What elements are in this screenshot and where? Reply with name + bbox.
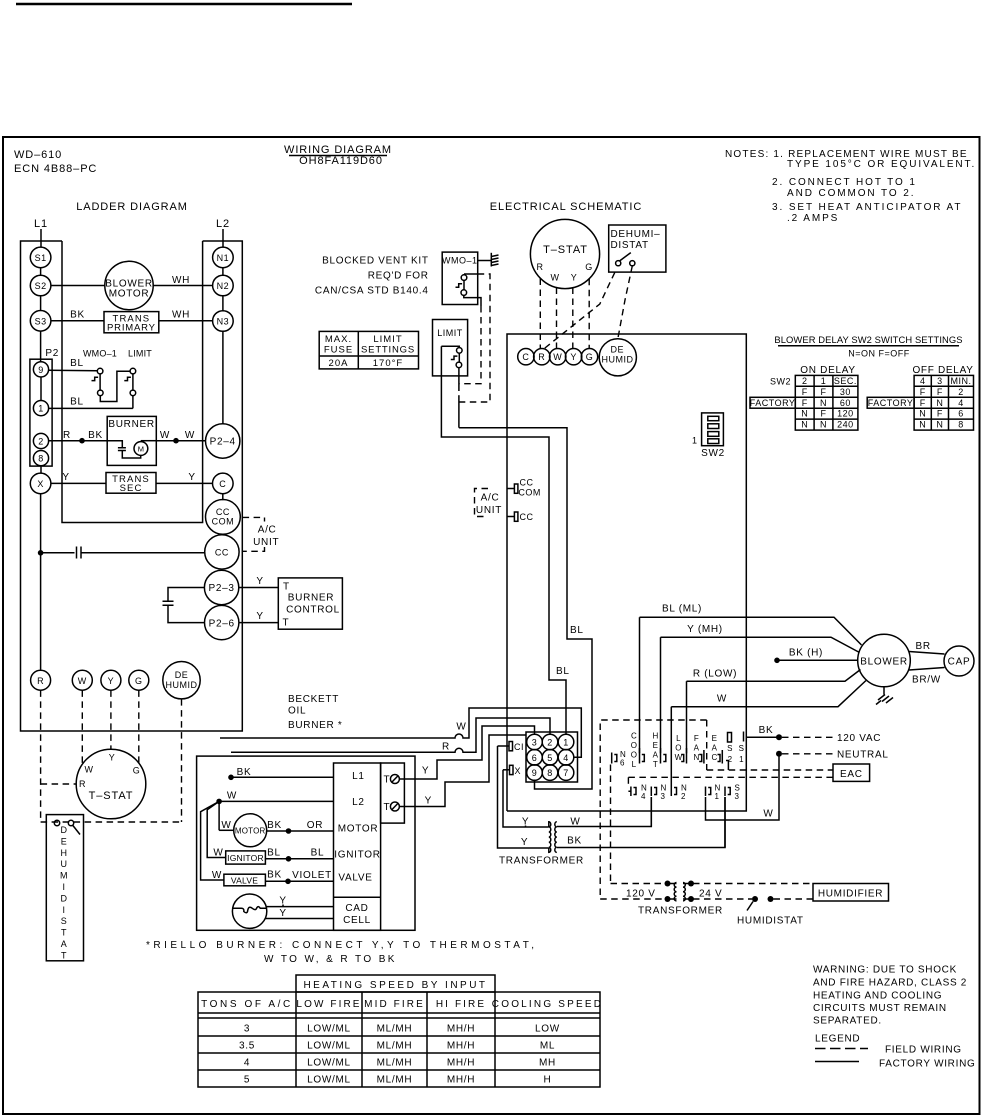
- svg-text:BURNER: BURNER: [108, 419, 154, 430]
- svg-text:AND COMMON TO 2.: AND COMMON TO 2.: [787, 188, 915, 199]
- svg-text:120 V: 120 V: [626, 889, 656, 900]
- svg-text:8: 8: [958, 420, 964, 430]
- svg-text:L: L: [676, 734, 681, 743]
- burner box: [107, 416, 156, 465]
- svg-text:REQ'D FOR: REQ'D FOR: [368, 271, 429, 282]
- svg-text:A/C: A/C: [481, 493, 500, 504]
- wire Y from L1 screw to pin 3: [399, 726, 534, 779]
- svg-text:MH: MH: [539, 1058, 556, 1069]
- svg-text:LOW/ML: LOW/ML: [307, 1041, 351, 1052]
- svg-text:BK: BK: [267, 870, 282, 881]
- wire pin2 to burner, R BK: [49, 440, 108, 442]
- plug S2: [728, 733, 732, 743]
- svg-text:CONTROL: CONTROL: [286, 605, 340, 616]
- field wire R to t-stat: [40, 690, 42, 822]
- svg-text:SW2: SW2: [770, 377, 791, 387]
- svg-text:O: O: [631, 741, 638, 750]
- svg-text:TRANSFORMER: TRANSFORMER: [638, 906, 723, 917]
- svg-text:FACTORY: FACTORY: [750, 398, 796, 408]
- svg-text:BURNER: BURNER: [288, 593, 334, 604]
- svg-text:T: T: [61, 950, 67, 960]
- svg-text:W: W: [185, 430, 195, 441]
- svg-text:T–STAT: T–STAT: [89, 790, 134, 802]
- heating speed table: [198, 975, 600, 1087]
- svg-text:VALVE: VALVE: [338, 873, 372, 884]
- svg-text:BL (ML): BL (ML): [662, 604, 702, 615]
- svg-text:1: 1: [739, 755, 744, 764]
- svg-text:1: 1: [38, 404, 44, 414]
- wire trans primary to N3, WH: [159, 320, 213, 322]
- svg-text:BL: BL: [556, 666, 570, 677]
- svg-text:R: R: [63, 430, 71, 441]
- field wire WMO-1 bottom tap: [459, 306, 481, 384]
- svg-text:BLOWER: BLOWER: [860, 657, 908, 668]
- svg-text:.2 AMPS: .2 AMPS: [787, 213, 839, 224]
- terminal Y: [101, 670, 121, 690]
- svg-text:24 V: 24 V: [699, 889, 722, 900]
- svg-text:F: F: [821, 409, 827, 419]
- svg-text:HUMIDISTAT: HUMIDISTAT: [737, 916, 804, 927]
- svg-text:CELL: CELL: [343, 915, 371, 926]
- pin 8: [33, 451, 48, 466]
- svg-text:2. CONNECT HOT TO 1: 2. CONNECT HOT TO 1: [772, 177, 917, 188]
- svg-text:ML/MH: ML/MH: [377, 1075, 413, 1086]
- svg-text:U: U: [61, 859, 68, 869]
- svg-text:1: 1: [821, 376, 827, 386]
- plug S3: [725, 787, 730, 797]
- wire R(LOW) down to LOW plug: [686, 681, 688, 753]
- connector P2 box: [30, 359, 52, 466]
- svg-text:MH/H: MH/H: [447, 1058, 475, 1069]
- svg-text:COM: COM: [212, 517, 235, 527]
- svg-text:N: N: [919, 420, 926, 430]
- pin 6: [527, 750, 543, 766]
- blower motor B1: [105, 261, 153, 309]
- svg-text:M: M: [138, 445, 144, 454]
- A/C UNIT dashed bracket (ladder): [243, 517, 265, 551]
- svg-text:T–STAT: T–STAT: [543, 244, 588, 256]
- svg-text:A: A: [61, 939, 68, 949]
- plug N3: [651, 787, 656, 797]
- legend factory wiring sample: [815, 1061, 859, 1063]
- plug CI: [498, 745, 510, 747]
- plug X: [503, 769, 510, 771]
- svg-text:9: 9: [532, 768, 538, 778]
- svg-text:5: 5: [244, 1075, 250, 1086]
- svg-text:D: D: [61, 893, 68, 903]
- svg-text:W: W: [213, 848, 223, 859]
- svg-text:DISTAT: DISTAT: [611, 240, 649, 251]
- burner internal motor M: [134, 442, 148, 456]
- svg-text:CC: CC: [520, 512, 534, 522]
- svg-text:Y: Y: [521, 837, 528, 848]
- wire WMO-1 to chassis hash: [478, 260, 492, 262]
- svg-text:MH/H: MH/H: [447, 1075, 475, 1086]
- svg-text:3: 3: [735, 792, 740, 801]
- svg-text:BLOWER DELAY SW2 SWITCH SETTIN: BLOWER DELAY SW2 SWITCH SETTINGS: [774, 334, 962, 345]
- svg-text:T: T: [61, 928, 67, 938]
- pin 3: [527, 734, 543, 750]
- switch WMO-1 (schematic): [456, 274, 482, 306]
- svg-text:HUMID: HUMID: [602, 355, 634, 365]
- dehumidistat box (ladder): [46, 815, 83, 961]
- svg-text:EAC: EAC: [840, 769, 863, 780]
- svg-text:W TO W, & R TO BK: W TO W, & R TO BK: [264, 954, 397, 965]
- svg-text:8: 8: [38, 454, 44, 464]
- wire X down to R: [40, 494, 42, 670]
- svg-text:MH/H: MH/H: [447, 1024, 475, 1035]
- chassis hash symbol: [491, 253, 498, 267]
- svg-text:ML: ML: [540, 1041, 555, 1052]
- burner primary control column box: [334, 763, 381, 930]
- wire transformer BK to S3 plug: [557, 797, 725, 848]
- svg-text:4: 4: [641, 792, 646, 801]
- svg-text:WH: WH: [172, 275, 190, 286]
- svg-text:C: C: [219, 479, 226, 489]
- junction dot: [79, 438, 85, 444]
- svg-text:3. SET HEAT ANTICIPATOR AT: 3. SET HEAT ANTICIPATOR AT: [772, 202, 962, 213]
- burner motor circle: [234, 814, 267, 847]
- dehumidistat vertical label: [60, 825, 68, 960]
- terminal R (schematic): [534, 349, 550, 365]
- svg-text:DE: DE: [611, 345, 625, 355]
- svg-text:L2: L2: [216, 218, 230, 230]
- wire N1 plug to neutral dot: [706, 754, 780, 820]
- svg-text:F: F: [937, 387, 943, 397]
- svg-text:HEATING SPEED BY INPUT: HEATING SPEED BY INPUT: [303, 980, 487, 991]
- terminal G (schematic): [581, 349, 597, 365]
- svg-text:Y: Y: [279, 908, 286, 919]
- svg-text:Y: Y: [422, 766, 429, 777]
- svg-text:W: W: [456, 722, 466, 733]
- terminal P2-6: [205, 605, 239, 639]
- terminal G: [129, 670, 149, 690]
- field wire t-stat W: [556, 288, 558, 350]
- svg-text:60: 60: [840, 398, 851, 408]
- svg-text:A: A: [653, 751, 659, 760]
- svg-text:PRIMARY: PRIMARY: [107, 323, 156, 334]
- svg-text:BL: BL: [267, 848, 281, 859]
- svg-text:CAP: CAP: [948, 657, 971, 668]
- svg-text:F: F: [937, 409, 943, 419]
- svg-text:F: F: [802, 387, 808, 397]
- svg-text:1: 1: [715, 792, 720, 801]
- field wires into humidifier transformer: [611, 883, 665, 885]
- svg-text:HI FIRE: HI FIRE: [436, 999, 486, 1010]
- svg-text:P2–6: P2–6: [209, 618, 235, 629]
- svg-text:N3: N3: [217, 317, 230, 327]
- transformer T1 secondary box: [106, 473, 156, 494]
- svg-text:P2–3: P2–3: [209, 583, 235, 594]
- fuse-limit table: [319, 331, 418, 369]
- terminal CC COM: [206, 500, 241, 535]
- svg-text:MIN.: MIN.: [951, 376, 972, 386]
- svg-text:N: N: [693, 753, 699, 762]
- pin 4: [558, 750, 574, 766]
- field wire to EAC box: [707, 769, 833, 771]
- svg-text:F: F: [694, 734, 699, 743]
- svg-text:COOLING SPEED: COOLING SPEED: [492, 999, 603, 1010]
- svg-text:G: G: [586, 352, 594, 362]
- A/C UNIT dashed bracket (schematic): [475, 489, 489, 517]
- wire Y from L2 screw to pin 3 area: [399, 735, 526, 807]
- svg-text:LADDER DIAGRAM: LADDER DIAGRAM: [76, 201, 188, 213]
- svg-text:SETTINGS: SETTINGS: [361, 345, 415, 356]
- svg-text:C: C: [631, 732, 637, 741]
- plug N2: [671, 787, 676, 797]
- plug CC COM (A/C unit): [507, 488, 514, 490]
- terminal S2: [30, 275, 51, 296]
- svg-text:R: R: [37, 676, 44, 686]
- svg-text:LIMIT: LIMIT: [437, 328, 463, 338]
- pin 9: [527, 765, 543, 781]
- svg-text:S1: S1: [35, 253, 47, 263]
- terminal W (schematic): [550, 349, 566, 365]
- svg-text:IGNITOR: IGNITOR: [227, 853, 264, 863]
- svg-text:CAN/CSA STD B140.4: CAN/CSA STD B140.4: [315, 286, 429, 297]
- terminal P2-4: [206, 424, 240, 458]
- burner control box U1: [278, 578, 342, 629]
- EAC plug stub: [726, 761, 728, 771]
- terminal N3: [213, 311, 234, 332]
- svg-text:W: W: [717, 694, 727, 705]
- pin 2: [542, 734, 558, 750]
- svg-text:UNIT: UNIT: [476, 505, 502, 516]
- beckett burner detail box: [197, 756, 415, 930]
- svg-text:TONS OF A/C: TONS OF A/C: [201, 999, 293, 1010]
- svg-text:N2: N2: [217, 281, 230, 291]
- terminal DE HUMID (ladder): [163, 662, 200, 699]
- legend field wiring sample: [815, 1048, 868, 1050]
- svg-text:S2: S2: [35, 281, 47, 291]
- svg-text:S: S: [739, 744, 745, 753]
- wire pin9-pin1: [40, 377, 42, 401]
- svg-text:C: C: [522, 352, 529, 362]
- svg-text:T: T: [283, 618, 290, 629]
- wire R/BK stair to pin 2: [231, 718, 550, 752]
- svg-text:W: W: [160, 430, 170, 441]
- WMO-1 box (schematic): [442, 252, 478, 304]
- svg-text:OH8FA119D60: OH8FA119D60: [299, 155, 383, 167]
- svg-text:N: N: [820, 398, 827, 408]
- svg-text:LIMIT: LIMIT: [373, 334, 402, 345]
- svg-text:MID FIRE: MID FIRE: [364, 999, 425, 1010]
- pin 1: [33, 401, 48, 416]
- wire LIMIT left to pin 1, BL: [441, 346, 566, 734]
- svg-text:BK: BK: [70, 310, 85, 321]
- wire pin9 to WMO-1 switch, BL: [49, 369, 98, 372]
- DIP switch SW2: [702, 413, 724, 446]
- capacitor to CC: [41, 552, 75, 554]
- svg-text:F: F: [802, 398, 808, 408]
- svg-text:IGNITOR: IGNITOR: [334, 850, 380, 861]
- wire C to CC COM: [222, 494, 224, 501]
- wire blower to capacitor BR/W: [909, 668, 945, 671]
- svg-text:A: A: [712, 744, 718, 753]
- svg-text:HUMIDIFIER: HUMIDIFIER: [818, 889, 883, 900]
- junction dot on X-R wire: [38, 550, 44, 556]
- terminal C: [213, 473, 234, 494]
- terminal S1: [30, 247, 51, 268]
- svg-text:4: 4: [920, 376, 926, 386]
- svg-text:2: 2: [547, 738, 553, 748]
- svg-text:W: W: [227, 791, 237, 802]
- transformer T1 primary box: [104, 312, 159, 333]
- svg-text:SEC.: SEC.: [834, 376, 857, 386]
- svg-text:2: 2: [728, 755, 733, 764]
- wire cad cell Y lower: [265, 918, 334, 920]
- svg-text:Y: Y: [425, 796, 432, 807]
- wire L2 stem: [222, 229, 224, 247]
- svg-text:3.5: 3.5: [239, 1041, 255, 1052]
- svg-text:LOW/ML: LOW/ML: [307, 1075, 351, 1086]
- svg-text:WMO–1: WMO–1: [83, 349, 117, 359]
- svg-text:T: T: [653, 760, 658, 769]
- svg-text:F: F: [920, 387, 926, 397]
- terminal Y (schematic): [565, 349, 581, 365]
- svg-text:20A: 20A: [329, 358, 349, 369]
- bus continues to S1 and down: [507, 737, 746, 811]
- terminal screws box: [381, 763, 405, 823]
- svg-text:DEHUMI–: DEHUMI–: [611, 229, 661, 240]
- screw terminal L2: [390, 802, 399, 811]
- svg-text:R: R: [537, 262, 544, 272]
- cad cell sensor: [232, 894, 266, 928]
- terminal DE HUMID (schematic): [599, 339, 636, 376]
- field wire WMO-1 top tap: [459, 274, 490, 402]
- svg-text:BR/W: BR/W: [912, 675, 941, 686]
- svg-text:NEUTRAL: NEUTRAL: [837, 750, 889, 761]
- svg-text:2: 2: [38, 437, 44, 447]
- svg-text:W: W: [221, 820, 231, 831]
- svg-text:ML/MH: ML/MH: [377, 1041, 413, 1052]
- svg-text:TRANSFORMER: TRANSFORMER: [499, 856, 584, 867]
- svg-text:2: 2: [681, 792, 686, 801]
- plug N6: [612, 753, 617, 764]
- wire trans sec to C, Y: [156, 482, 213, 484]
- plug N4: [628, 787, 636, 797]
- wire W stair to pin 4: [220, 708, 581, 757]
- svg-text:BR: BR: [916, 641, 931, 652]
- svg-text:W: W: [553, 352, 562, 362]
- svg-text:R: R: [538, 352, 545, 362]
- thermostat T-STAT (ladder): [76, 749, 146, 819]
- svg-text:F: F: [821, 387, 827, 397]
- svg-text:MOTOR: MOTOR: [338, 824, 379, 835]
- switch LIMIT (schematic): [441, 346, 462, 428]
- pin 5: [542, 750, 558, 766]
- dashed field box around motor plugs: [600, 720, 707, 899]
- wire S3 to trans primary, BK: [51, 320, 104, 322]
- screw terminal L1: [390, 775, 399, 784]
- wire burner to P2-4, W W: [141, 440, 156, 442]
- svg-text:6: 6: [958, 409, 964, 419]
- switch WMO-1 (ladder): [92, 368, 131, 401]
- svg-text:N: N: [820, 420, 827, 430]
- svg-text:2: 2: [958, 387, 964, 397]
- svg-text:P2–4: P2–4: [210, 437, 236, 448]
- wire NEUTRAL: [776, 751, 782, 757]
- wire blower motor to N2, WH: [153, 285, 212, 287]
- svg-text:LOW: LOW: [535, 1024, 560, 1035]
- field wire t-stat Y: [572, 288, 574, 350]
- svg-text:P2: P2: [45, 348, 59, 359]
- svg-text:AND FIRE HAZARD, CLASS 2: AND FIRE HAZARD, CLASS 2: [813, 978, 967, 989]
- switch LIMIT (ladder): [124, 368, 135, 408]
- svg-text:Y: Y: [108, 676, 115, 686]
- svg-text:SW2: SW2: [701, 448, 725, 459]
- wire pin 9 down via plug CI: [498, 746, 549, 848]
- field wire dehumidistat to DE HUMID: [618, 266, 633, 339]
- svg-text:A/C: A/C: [258, 525, 277, 536]
- svg-text:2: 2: [802, 376, 808, 386]
- svg-text:N=ON F=OFF: N=ON F=OFF: [848, 349, 910, 359]
- svg-text:E: E: [61, 836, 68, 846]
- svg-text:BECKETT: BECKETT: [288, 694, 339, 705]
- terminal N2: [213, 275, 234, 296]
- svg-text:MOTOR: MOTOR: [235, 827, 266, 836]
- svg-text:BK: BK: [567, 836, 582, 847]
- run capacitor CAP: [944, 646, 974, 676]
- 9-pin connector box: [526, 732, 578, 782]
- wire L1 stem: [40, 229, 42, 247]
- svg-text:H: H: [61, 848, 68, 858]
- dehumidistat switch contacts: [54, 820, 59, 825]
- svg-text:4: 4: [244, 1058, 250, 1069]
- svg-text:BLOCKED VENT KIT: BLOCKED VENT KIT: [322, 256, 429, 267]
- svg-text:BL: BL: [70, 397, 84, 408]
- field wire G to t-stat: [138, 690, 140, 763]
- svg-text:UNIT: UNIT: [253, 537, 279, 548]
- svg-text:LIMIT: LIMIT: [128, 349, 152, 359]
- wire Y(MH) down to HEAT plug: [660, 637, 662, 753]
- svg-text:D: D: [61, 825, 68, 835]
- wire pin8 to X: [40, 466, 42, 473]
- svg-text:ECN 4B88–PC: ECN 4B88–PC: [14, 163, 97, 175]
- svg-text:WD–610: WD–610: [14, 149, 62, 161]
- ignitor box: [226, 851, 266, 864]
- svg-text:G: G: [585, 262, 593, 272]
- svg-text:TYPE 105°C OR EQUIVALENT.: TYPE 105°C OR EQUIVALENT.: [787, 159, 976, 170]
- svg-text:BL: BL: [570, 625, 584, 636]
- svg-text:3: 3: [244, 1024, 250, 1035]
- terminal CC: [205, 535, 239, 569]
- svg-text:OFF DELAY: OFF DELAY: [912, 365, 973, 376]
- thermostat T-STAT (schematic): [530, 219, 599, 288]
- wire X to trans sec, Y: [51, 482, 106, 484]
- wire transformer W to N3 plug: [557, 797, 652, 827]
- dehumidistat box (schematic): [609, 225, 666, 272]
- svg-text:8: 8: [547, 768, 553, 778]
- field wire t-stat G: [588, 279, 590, 349]
- field wire N4 row to EAC: [628, 776, 833, 778]
- svg-text:LOW FIRE: LOW FIRE: [296, 999, 361, 1010]
- svg-text:W: W: [78, 676, 87, 686]
- LIMIT box (schematic): [433, 320, 468, 376]
- svg-text:BL: BL: [311, 848, 325, 859]
- svg-text:6: 6: [620, 759, 625, 768]
- pin 7: [558, 765, 574, 781]
- field wire 24V to humidifier: [693, 883, 813, 885]
- svg-text:M: M: [60, 871, 68, 881]
- wire W dot down to burner motor: [218, 801, 220, 830]
- svg-text:ML/MH: ML/MH: [377, 1024, 413, 1035]
- svg-text:BK: BK: [88, 430, 103, 441]
- wire BL(ML) down to COOL plug: [639, 617, 641, 753]
- svg-text:*RIELLO BURNER: CONNECT Y,Y T: *RIELLO BURNER: CONNECT Y,Y TO THERMOSTA…: [146, 940, 538, 951]
- svg-text:BK: BK: [237, 767, 252, 778]
- svg-text:BK: BK: [267, 820, 282, 831]
